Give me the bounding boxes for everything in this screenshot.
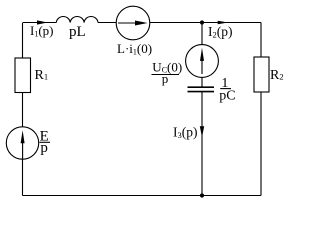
svg-text:I2(p): I2(p): [208, 24, 233, 40]
svg-text:I1(p): I1(p): [30, 23, 54, 39]
svg-text:p: p: [162, 71, 169, 86]
svg-text:pC: pC: [219, 89, 235, 104]
svg-text:pL: pL: [69, 24, 86, 40]
svg-text:I3(p): I3(p): [173, 125, 198, 141]
